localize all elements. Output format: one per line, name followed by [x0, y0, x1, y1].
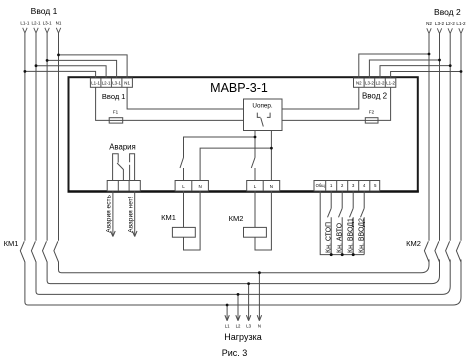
svg-text:КМ2: КМ2	[406, 239, 421, 248]
svg-text:Ввод 2: Ввод 2	[362, 92, 388, 101]
svg-text:F2: F2	[369, 110, 375, 115]
svg-text:Общ: Общ	[316, 183, 326, 188]
svg-text:N: N	[198, 184, 201, 189]
svg-text:L2-1: L2-1	[31, 21, 41, 26]
svg-text:Uопер.: Uопер.	[252, 103, 272, 110]
svg-text:L3-2: L3-2	[435, 21, 445, 26]
svg-text:Авария есть: Авария есть	[106, 194, 113, 232]
svg-text:Ввод 1: Ввод 1	[31, 6, 58, 16]
svg-text:Рис. 3: Рис. 3	[222, 348, 248, 357]
svg-text:МАВР-3-1: МАВР-3-1	[210, 81, 268, 95]
svg-text:N1: N1	[56, 21, 62, 26]
svg-text:L1: L1	[225, 324, 230, 329]
svg-text:F1: F1	[113, 110, 119, 115]
svg-text:N1: N1	[124, 81, 130, 86]
svg-text:Ввод 2: Ввод 2	[434, 7, 461, 17]
svg-text:N: N	[270, 184, 273, 189]
svg-text:Авария нет!: Авария нет!	[128, 196, 135, 232]
svg-text:L3: L3	[246, 324, 251, 329]
svg-text:Авария: Авария	[109, 142, 136, 151]
svg-text:Кн. СТОП: Кн. СТОП	[326, 222, 333, 253]
svg-text:N: N	[258, 324, 261, 329]
svg-text:Нагрузка: Нагрузка	[224, 332, 261, 342]
svg-text:L1-2: L1-2	[386, 81, 395, 86]
svg-text:N2: N2	[426, 21, 432, 26]
svg-text:Кн. АВТО: Кн. АВТО	[337, 222, 344, 253]
svg-text:N2: N2	[356, 81, 362, 86]
svg-text:КМ1: КМ1	[4, 239, 19, 248]
svg-text:КМ2: КМ2	[229, 214, 244, 223]
svg-text:L1-1: L1-1	[20, 21, 30, 26]
svg-text:L3-1: L3-1	[112, 81, 121, 86]
svg-text:L2: L2	[236, 324, 241, 329]
svg-text:Кн. ВВОД1: Кн. ВВОД1	[348, 218, 355, 253]
svg-text:L3-2: L3-2	[365, 81, 374, 86]
svg-text:L2-1: L2-1	[102, 81, 111, 86]
svg-text:L1-1: L1-1	[91, 81, 100, 86]
svg-text:L3-1: L3-1	[43, 21, 53, 26]
svg-text:L2-2: L2-2	[376, 81, 385, 86]
svg-text:L2-2: L2-2	[446, 21, 456, 26]
svg-text:Ввод 1: Ввод 1	[102, 92, 126, 101]
svg-text:КМ1: КМ1	[161, 213, 176, 222]
svg-text:L1-2: L1-2	[456, 21, 466, 26]
svg-text:Кн. ВВОД2: Кн. ВВОД2	[359, 218, 366, 253]
